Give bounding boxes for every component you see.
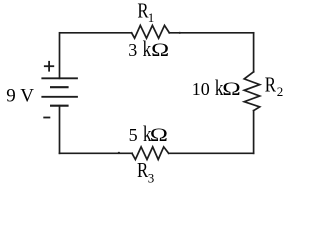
svg-text:5: 5	[129, 125, 138, 145]
svg-text:3: 3	[128, 40, 137, 60]
svg-text:9 V: 9 V	[6, 86, 34, 107]
svg-text:3: 3	[148, 171, 155, 186]
svg-text:10: 10	[192, 79, 210, 99]
svg-text:R: R	[137, 158, 148, 182]
svg-text:Ω: Ω	[150, 125, 168, 146]
svg-text:Ω: Ω	[151, 40, 169, 61]
svg-text:R: R	[265, 73, 276, 97]
svg-text:Ω: Ω	[222, 79, 241, 100]
svg-text:1: 1	[148, 10, 155, 25]
svg-text:2: 2	[277, 84, 284, 99]
svg-text:k: k	[143, 36, 152, 61]
